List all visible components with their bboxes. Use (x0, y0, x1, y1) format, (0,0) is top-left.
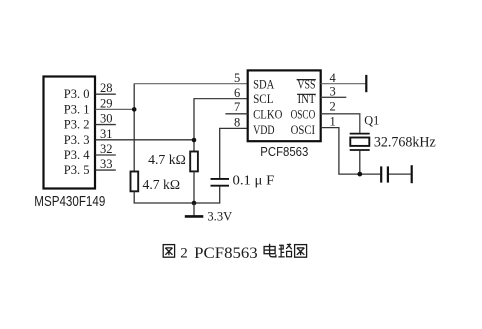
svg-text:P3. 3: P3. 3 (64, 133, 90, 147)
svg-text:32: 32 (100, 142, 113, 156)
caption character lu (road) (278, 244, 292, 257)
wire SDA top run to PCF8563 pin 5 (134, 83, 248, 85)
svg-text:32.768kHz: 32.768kHz (374, 134, 436, 150)
wire C2 to terminal (389, 173, 411, 175)
svg-text:1: 1 (330, 115, 336, 129)
svg-text:31: 31 (100, 127, 113, 141)
svg-text:PCF8563: PCF8563 (194, 245, 258, 262)
node B junction dot (192, 138, 197, 143)
svg-text:4.7 kΩ: 4.7 kΩ (148, 152, 186, 167)
svg-text:3.3V: 3.3V (207, 210, 232, 224)
capacitor C1 bottom plate (211, 185, 230, 187)
wire R2 bottom to rail (193, 171, 195, 203)
caption character tu (figure) (163, 245, 174, 258)
wire C1 bottom to rail (219, 187, 221, 204)
svg-text:28: 28 (100, 81, 113, 95)
svg-text:VDD: VDD (253, 123, 275, 137)
wire OSCI pin1 down and right to junction D (321, 128, 381, 175)
svg-text:0.1 μ F: 0.1 μ F (233, 172, 275, 187)
node C junction dot on rail (192, 201, 197, 206)
svg-text:2: 2 (180, 246, 188, 262)
svg-text:CLKO: CLKO (253, 108, 282, 122)
svg-text:MSP430F149: MSP430F149 (34, 194, 105, 210)
terminal bar pin4 (365, 75, 367, 92)
resistor R1 4.7k body (131, 172, 139, 192)
wire P3.3 to junction B (96, 139, 195, 141)
svg-text:P3. 4: P3. 4 (64, 148, 90, 162)
terminal bar right (411, 165, 413, 183)
capacitor C2 right plate (387, 166, 389, 182)
svg-text:Q1: Q1 (364, 114, 379, 128)
pin 30 stub wire (96, 124, 116, 126)
pin 7 stub wire CLKO (225, 113, 247, 115)
wire stub down to 3.3V bar (193, 203, 195, 215)
wire SDA vertical from top run down to resistor R1 (133, 84, 135, 172)
pin 32 stub wire (96, 154, 116, 156)
crystal Q1 bottom plate (350, 149, 370, 151)
wire VDD pin8 down to capacitor C1 (220, 128, 248, 178)
power symbol 3.3V bar (185, 215, 204, 218)
wire SCL vertical from pin6 run down to resistor R2 (193, 99, 195, 152)
svg-text:30: 30 (100, 112, 113, 126)
svg-text:P3. 2: P3. 2 (64, 118, 90, 132)
svg-text:OSCO: OSCO (291, 108, 316, 122)
svg-text:OSCI: OSCI (291, 123, 316, 137)
pin 28 stub wire (96, 93, 116, 95)
wire SCL run to PCF8563 pin 6 (193, 98, 247, 100)
wire supply rail bottom (134, 201, 220, 204)
crystal Q1 top plate (350, 133, 370, 135)
wire P3.1 to junction A (96, 108, 135, 110)
capacitor C2 left plate (380, 166, 382, 182)
svg-text:29: 29 (100, 96, 113, 110)
chip U2 MSP430F149 body (44, 77, 96, 189)
svg-text:P3. 0: P3. 0 (64, 87, 90, 101)
svg-text:SCL: SCL (253, 92, 273, 106)
chip U1 PCF8563 body (248, 70, 321, 141)
svg-text:8: 8 (234, 116, 240, 130)
crystal Q1 body (350, 138, 369, 146)
svg-text:33: 33 (100, 157, 113, 171)
svg-text:7: 7 (234, 100, 240, 114)
pin 33 stub wire (96, 169, 116, 171)
svg-text:5: 5 (234, 71, 240, 85)
svg-text:3: 3 (330, 84, 336, 98)
wire crystal bottom to junction D (359, 151, 361, 174)
svg-text:4: 4 (330, 71, 337, 85)
caption character dian (electric) (264, 244, 276, 257)
svg-text:P3. 5: P3. 5 (64, 163, 90, 177)
capacitor C1 top plate (211, 178, 230, 180)
resistor R2 4.7k body (190, 152, 198, 172)
svg-text:4.7 kΩ: 4.7 kΩ (143, 177, 181, 192)
svg-text:PCF8563: PCF8563 (260, 144, 308, 159)
svg-text:P3. 1: P3. 1 (64, 102, 90, 116)
node D junction dot (357, 172, 362, 177)
wire VSS pin4 to terminal (321, 83, 366, 85)
caption character tu (figure) second (295, 245, 307, 258)
wire OSCO pin2 to crystal (321, 114, 360, 133)
svg-text:6: 6 (234, 86, 240, 100)
svg-text:SDA: SDA (253, 78, 274, 92)
svg-text:2: 2 (330, 99, 336, 113)
wire INT pin3 stub (321, 96, 347, 98)
node A junction dot (132, 107, 137, 112)
wire R1 bottom to rail (133, 191, 135, 203)
